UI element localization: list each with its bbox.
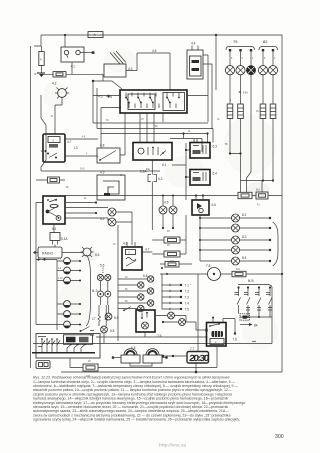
svg-text:5.8: 5.8 <box>110 329 115 333</box>
sender 6 <box>64 321 71 328</box>
wire: left trunk <box>36 203 57 331</box>
fuse F21 <box>232 271 246 277</box>
svg-text:300: 300 <box>275 434 284 440</box>
wire: battery positive to starter node <box>80 52 93 54</box>
svg-text:6.8: 6.8 <box>131 346 136 350</box>
svg-text:+: + <box>190 284 192 286</box>
svg-text:F21: F21 <box>236 269 241 271</box>
lamp column 8.x <box>199 215 232 261</box>
svg-text:7.8: 7.8 <box>206 264 211 268</box>
svg-text:ogrzewania szyby tylnej, 24—wł: ogrzewania szyby tylnej, 24—włącznik świ… <box>33 418 240 422</box>
switch 4.8 <box>97 148 120 163</box>
svg-text:30: 30 <box>106 120 109 122</box>
svg-text:7.4: 7.4 <box>185 302 190 306</box>
lamp 8.2 <box>232 214 240 222</box>
brake switch box 7.6 <box>136 310 162 338</box>
resistor R (left feed) <box>39 52 44 66</box>
sender 1 <box>64 258 71 265</box>
svg-text:15: 15 <box>141 119 144 121</box>
fuse F3 <box>164 237 180 243</box>
contact column c <box>269 286 271 288</box>
indicator lamp column 2 <box>236 49 245 154</box>
svg-text:4.5: 4.5 <box>152 49 157 53</box>
svg-text:6: 6 <box>264 58 266 60</box>
svg-text:82: 82 <box>263 39 268 44</box>
svg-text:4.10: 4.10 <box>58 278 63 280</box>
svg-text:4.5: 4.5 <box>164 201 169 205</box>
sender 5 <box>64 311 71 318</box>
control unit E2 (hatched) <box>64 335 93 345</box>
svg-text:8.2: 8.2 <box>242 213 247 217</box>
lamp 7.7 <box>179 319 186 326</box>
svg-text:4.7: 4.7 <box>67 140 72 144</box>
svg-text:5: 5 <box>231 58 233 60</box>
fuse F4 <box>164 251 180 257</box>
node: relay feeds <box>185 149 187 151</box>
RADIO <box>38 247 62 258</box>
indicator lamp column 3 (lit) <box>246 49 255 192</box>
switch bank inside <box>38 337 60 353</box>
node: junction on top bus <box>64 34 66 36</box>
svg-text:7.2: 7.2 <box>185 290 190 294</box>
contact column b <box>258 286 260 288</box>
svg-text:4.9: 4.9 <box>82 137 86 139</box>
svg-text:6.3: 6.3 <box>213 145 218 149</box>
svg-text:5.2: 5.2 <box>100 217 105 221</box>
clock 7.7 <box>162 274 210 373</box>
scan noise <box>43 48 278 350</box>
contacts under E2 <box>67 345 85 353</box>
svg-text:5.5: 5.5 <box>95 253 100 257</box>
svg-text:7.7: 7.7 <box>190 347 195 351</box>
svg-text:31: 31 <box>188 131 191 133</box>
svg-text:56: 56 <box>66 187 69 189</box>
svg-text:F8: F8 <box>167 231 170 233</box>
dashed connector B4 <box>240 314 250 320</box>
svg-text:RADIO: RADIO <box>42 252 54 256</box>
svg-text:8.3: 8.3 <box>242 235 247 239</box>
svg-text:7.5: 7.5 <box>185 308 190 312</box>
lamps 4.5 pair <box>159 206 167 214</box>
svg-text:84: 84 <box>254 323 258 327</box>
lamp 4.2 with rays <box>58 89 67 98</box>
bus under block <box>240 288 272 318</box>
lamps small pair <box>97 274 103 280</box>
bus bar <box>32 352 95 354</box>
wire: long bus y123 <box>93 122 208 124</box>
svg-text:5.9: 5.9 <box>114 316 119 320</box>
relay 4.7 <box>43 134 72 162</box>
indicator lamp column 4 <box>258 49 267 181</box>
svg-text:4.9: 4.9 <box>100 171 105 175</box>
svg-text:16: 16 <box>113 244 116 246</box>
relay 6.4 <box>190 170 217 186</box>
svg-text:4.4: 4.4 <box>191 42 196 46</box>
ignition switch 4.4 <box>120 90 187 113</box>
wiper motor 6.1 <box>133 143 172 168</box>
svg-text:81A: 81A <box>256 189 261 192</box>
svg-text:L3: L3 <box>74 146 78 150</box>
lamps 5.2 <box>108 208 116 216</box>
component 6.2 <box>148 175 157 182</box>
figure caption <box>33 376 245 422</box>
wire: 5.1 outputs <box>65 196 238 219</box>
svg-text:3: 3 <box>242 58 244 60</box>
wire: bus y133.5 <box>101 134 208 153</box>
schematic frame <box>31 35 283 372</box>
svg-text:http://vnx.su: http://vnx.su <box>159 443 187 448</box>
contact column a <box>247 286 249 288</box>
switch 5.4 <box>81 327 94 332</box>
wire: pump feed <box>203 35 216 129</box>
relay 7.4 <box>205 317 237 368</box>
node: relay left <box>44 150 46 152</box>
svg-text:4.2: 4.2 <box>52 82 57 86</box>
lamp 5.8 <box>101 326 108 333</box>
svg-text:79: 79 <box>233 39 238 44</box>
wire: relay outputs <box>41 139 160 171</box>
sender 3 <box>64 277 71 284</box>
svg-text:6.1: 6.1 <box>162 163 167 167</box>
indicator lamp column 1 <box>225 49 234 154</box>
svg-text:8.8A: 8.8A <box>243 92 248 95</box>
relay 6.6 <box>192 200 216 215</box>
node: starter terminal <box>92 51 95 54</box>
arrow to 84 <box>240 324 249 326</box>
svg-text:50: 50 <box>155 126 158 128</box>
wire: top supply bus <box>34 35 41 46</box>
fuse F1 <box>256 192 268 199</box>
wire: bus y337 <box>96 336 208 338</box>
sensor column (gauges senders) <box>36 258 81 328</box>
svg-text:R: R <box>40 60 42 62</box>
svg-text:4.4: 4.4 <box>108 95 113 99</box>
svg-text:5.3: 5.3 <box>92 288 98 293</box>
relay box F5 <box>36 361 50 369</box>
lamp row4 <box>232 246 240 254</box>
fuse F26 <box>83 364 98 371</box>
wire: bus y343 <box>33 317 272 344</box>
svg-text:8.4: 8.4 <box>242 256 247 260</box>
svg-text:20:30: 20:30 <box>189 353 210 363</box>
svg-text:6.8: 6.8 <box>143 274 148 278</box>
svg-text:4.7: 4.7 <box>145 248 150 252</box>
brace right group <box>273 222 279 266</box>
sender 2 <box>64 267 71 274</box>
lamp 5.9 <box>105 313 112 320</box>
svg-text:F5: F5 <box>88 361 91 363</box>
wire: long bus y128 <box>97 129 213 143</box>
ground (battery negative) <box>37 72 45 74</box>
svg-text:6.2: 6.2 <box>158 177 163 181</box>
headlamp switch 5.1 <box>43 196 65 231</box>
svg-text:F1: F1 <box>257 205 260 207</box>
wire: 6.6 top nodes <box>195 194 197 196</box>
svg-text:7.3: 7.3 <box>185 296 190 300</box>
svg-text:4.1: 4.1 <box>71 65 76 69</box>
svg-text:F9: F9 <box>167 245 170 247</box>
svg-text:2: 2 <box>274 58 276 60</box>
ignition coil 4.3 <box>104 64 126 77</box>
lamp 7.7b <box>168 312 175 319</box>
horn 6.8b <box>130 349 168 366</box>
relay 4.6 <box>122 242 152 271</box>
terminal list 7.1-7.5 <box>162 274 189 312</box>
svg-text:4.8: 4.8 <box>58 259 62 261</box>
fuse F20 <box>165 262 179 268</box>
svg-text:4.9: 4.9 <box>58 268 62 270</box>
wire: battery to bus <box>64 35 66 47</box>
svg-text:31: 31 <box>84 198 87 200</box>
lamp 8.4 <box>232 257 240 265</box>
svg-text:7.6: 7.6 <box>157 334 162 338</box>
svg-text:4: 4 <box>86 154 88 156</box>
wire: coil to distributor <box>93 53 170 148</box>
svg-text:17: 17 <box>92 317 96 321</box>
svg-text:6.5: 6.5 <box>248 278 254 283</box>
svg-text:W: W <box>34 74 37 76</box>
wire: bottom run <box>98 367 217 369</box>
motor 7.8 <box>208 268 221 281</box>
svg-text:4.8: 4.8 <box>100 144 105 148</box>
sender 4 <box>64 301 71 308</box>
fuse (left feed) <box>48 177 60 183</box>
wire: lamp to relay 4.7 <box>55 97 62 134</box>
wire: fused feed below battery <box>42 62 123 89</box>
lamp 5.5 with rays <box>83 248 91 256</box>
motor 4.9 <box>97 175 125 200</box>
svg-text:1: 1 <box>252 58 254 60</box>
fuel pump 4.4a <box>187 50 203 79</box>
svg-text:7.6: 7.6 <box>233 338 238 342</box>
fuse F12 <box>53 72 66 77</box>
svg-text:10: 10 <box>51 116 54 118</box>
lamp row2 <box>232 224 240 232</box>
svg-text:5.1A: 5.1A <box>61 237 68 241</box>
lamp 8.3 <box>232 236 240 244</box>
lamp group 6.8 <box>118 225 154 341</box>
fuse A <box>88 32 103 38</box>
wire: lamp col drops join <box>230 154 262 193</box>
component 5.1A <box>50 233 60 241</box>
svg-text:6.4: 6.4 <box>213 172 218 176</box>
svg-text:7.1: 7.1 <box>185 284 190 288</box>
svg-text:4.5: 4.5 <box>98 95 103 99</box>
wire: 6.1 drops <box>140 113 163 143</box>
horn 6.8a <box>112 346 140 363</box>
wire: bus risers <box>93 81 97 129</box>
svg-text:5.6: 5.6 <box>100 264 105 268</box>
lighting switch unit (outer box) <box>36 334 100 359</box>
svg-text:24.5: 24.5 <box>80 169 85 171</box>
contact column a0 <box>237 286 239 288</box>
relay block 6.5 <box>235 278 273 341</box>
svg-text:4: 4 <box>230 100 232 102</box>
indicator lamp column 5 <box>268 49 277 181</box>
svg-text:16.5: 16.5 <box>256 111 261 113</box>
sockets pair <box>98 291 104 297</box>
svg-text:6.6: 6.6 <box>212 203 217 207</box>
node: feed junction <box>92 80 94 82</box>
battery 4.1 <box>61 47 84 62</box>
brace 5.3 <box>86 255 91 326</box>
relay 6.3 <box>190 143 217 159</box>
svg-text:E: E <box>53 140 55 142</box>
svg-text:16: 16 <box>217 119 220 121</box>
